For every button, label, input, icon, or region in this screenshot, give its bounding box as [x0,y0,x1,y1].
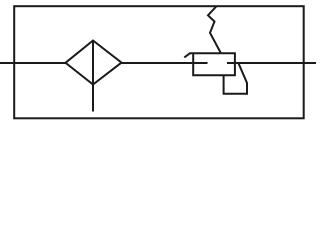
disconnector corner tail [184,53,190,58]
sparkover zigzag [208,7,221,54]
disconnector box [190,53,235,75]
wire right lead [227,62,316,64]
wire vertical through diamond [92,41,94,112]
wire middle [122,62,208,64]
enclosure box [14,6,304,118]
wire left lead [0,62,66,64]
spark-gap diamond [66,41,122,85]
indicator flag [224,64,247,94]
